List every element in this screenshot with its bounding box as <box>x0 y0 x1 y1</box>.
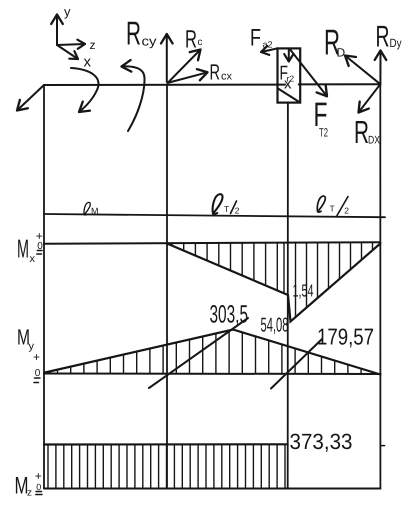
svg-text:373,33: 373,33 <box>290 429 353 454</box>
curved moment arrow left <box>71 68 98 112</box>
svg-text:x: x <box>284 76 292 93</box>
svg-text:z: z <box>90 38 96 52</box>
svg-text:54,08: 54,08 <box>261 315 289 337</box>
svg-text:0: 0 <box>36 482 41 492</box>
Mx axis label <box>17 229 43 265</box>
section line C <box>166 85 168 489</box>
svg-text:a2: a2 <box>263 40 273 50</box>
force F_T2 <box>290 49 329 140</box>
gear box inner lower diagonal <box>278 89 299 102</box>
Mz hatch <box>48 445 285 489</box>
svg-text:R: R <box>126 15 141 52</box>
force R_cx <box>168 60 233 85</box>
Mx diagram outline <box>167 244 380 322</box>
dimension line <box>44 214 385 217</box>
svg-text:y: y <box>64 4 71 19</box>
svg-text:T: T <box>330 204 335 214</box>
svg-text:DX: DX <box>368 135 381 147</box>
dim label l_T/2 left <box>213 194 240 215</box>
My axis label <box>17 325 41 380</box>
svg-text:303,5: 303,5 <box>210 301 249 329</box>
axis z <box>57 38 96 52</box>
dim label l_M <box>84 202 98 216</box>
svg-text:F: F <box>250 25 261 52</box>
My baseline <box>44 373 380 376</box>
svg-text:+: + <box>33 350 40 364</box>
My diagram outline <box>45 330 380 375</box>
svg-text:T: T <box>224 204 229 214</box>
section line D (right end) <box>379 84 381 488</box>
gear box <box>278 48 301 102</box>
force F_r2 <box>280 49 295 85</box>
svg-text:Dy: Dy <box>390 36 402 50</box>
arrow at left beam end <box>17 85 44 111</box>
svg-text:R: R <box>376 21 390 54</box>
Mx baseline <box>44 242 380 244</box>
svg-text:179,57: 179,57 <box>317 324 374 350</box>
svg-text:x: x <box>30 253 36 265</box>
My leader slash right <box>271 339 322 389</box>
svg-text:R: R <box>185 26 197 54</box>
svg-text:M: M <box>17 234 29 264</box>
svg-text:cy: cy <box>142 34 158 49</box>
svg-text:D: D <box>337 46 346 60</box>
curved moment arrow right <box>122 66 145 131</box>
force R_cy <box>126 15 167 83</box>
Mz axis label <box>15 469 42 500</box>
force F_a2 <box>250 25 278 53</box>
section line A (left end) <box>43 85 45 489</box>
svg-text:R: R <box>354 114 369 150</box>
svg-text:M: M <box>91 206 99 216</box>
svg-text:2: 2 <box>235 206 240 216</box>
axis y <box>57 4 71 45</box>
beam shaft line <box>44 83 380 86</box>
Mz rectangle top <box>44 443 288 445</box>
svg-text:1,54: 1,54 <box>293 281 314 301</box>
force R_c <box>168 26 203 83</box>
svg-text:T2: T2 <box>319 126 328 140</box>
section line gear <box>287 103 289 489</box>
svg-text:R: R <box>210 60 221 85</box>
svg-text:c: c <box>198 37 203 48</box>
Mx hatch <box>172 243 373 318</box>
My leader slash left <box>149 318 248 388</box>
svg-text:+: + <box>35 469 42 483</box>
dim label l_T/2 right <box>317 196 349 215</box>
Mz baseline <box>44 488 380 490</box>
svg-text:2: 2 <box>344 206 349 216</box>
tick on right section line <box>380 445 384 447</box>
force R_D <box>324 22 380 85</box>
Mx zero underline and minus <box>37 251 42 255</box>
svg-text:x: x <box>84 54 92 71</box>
My hatch <box>58 330 375 373</box>
force R_DX <box>354 84 381 150</box>
svg-text:cx: cx <box>221 71 233 83</box>
axis x <box>57 45 92 71</box>
force R_Dy <box>376 21 402 85</box>
svg-text:z: z <box>27 488 32 499</box>
